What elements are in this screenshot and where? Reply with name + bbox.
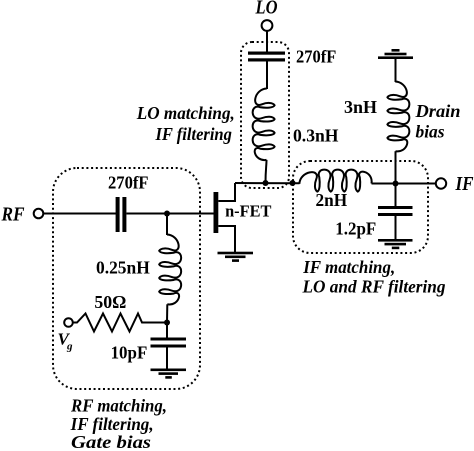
svg-text:270fF: 270fF <box>108 173 149 193</box>
svg-text:IF filtering: IF filtering <box>155 124 232 144</box>
svg-text:270fF: 270fF <box>296 46 336 66</box>
svg-text:LO: LO <box>255 0 278 19</box>
svg-text:Drain: Drain <box>414 101 460 121</box>
svg-text:RF matching,: RF matching, <box>70 396 167 416</box>
svg-text:bias: bias <box>416 121 445 141</box>
svg-text:2nH: 2nH <box>316 190 348 210</box>
svg-text:1.2pF: 1.2pF <box>335 218 376 238</box>
svg-text:0.3nH: 0.3nH <box>293 126 339 146</box>
svg-text:IF: IF <box>455 173 474 195</box>
svg-text:LO matching,: LO matching, <box>136 103 235 123</box>
svg-text:0.25nH: 0.25nH <box>96 258 150 278</box>
svg-text:RF: RF <box>1 203 25 225</box>
svg-text:Gate bias: Gate bias <box>71 432 151 451</box>
svg-text:10pF: 10pF <box>111 343 148 363</box>
svg-text:n-FET: n-FET <box>225 201 271 220</box>
svg-text:3nH: 3nH <box>344 97 377 117</box>
svg-text:g: g <box>66 341 73 353</box>
svg-text:IF matching,: IF matching, <box>302 257 395 277</box>
svg-text:50Ω: 50Ω <box>94 292 126 312</box>
svg-text:LO and RF filtering: LO and RF filtering <box>302 277 446 297</box>
